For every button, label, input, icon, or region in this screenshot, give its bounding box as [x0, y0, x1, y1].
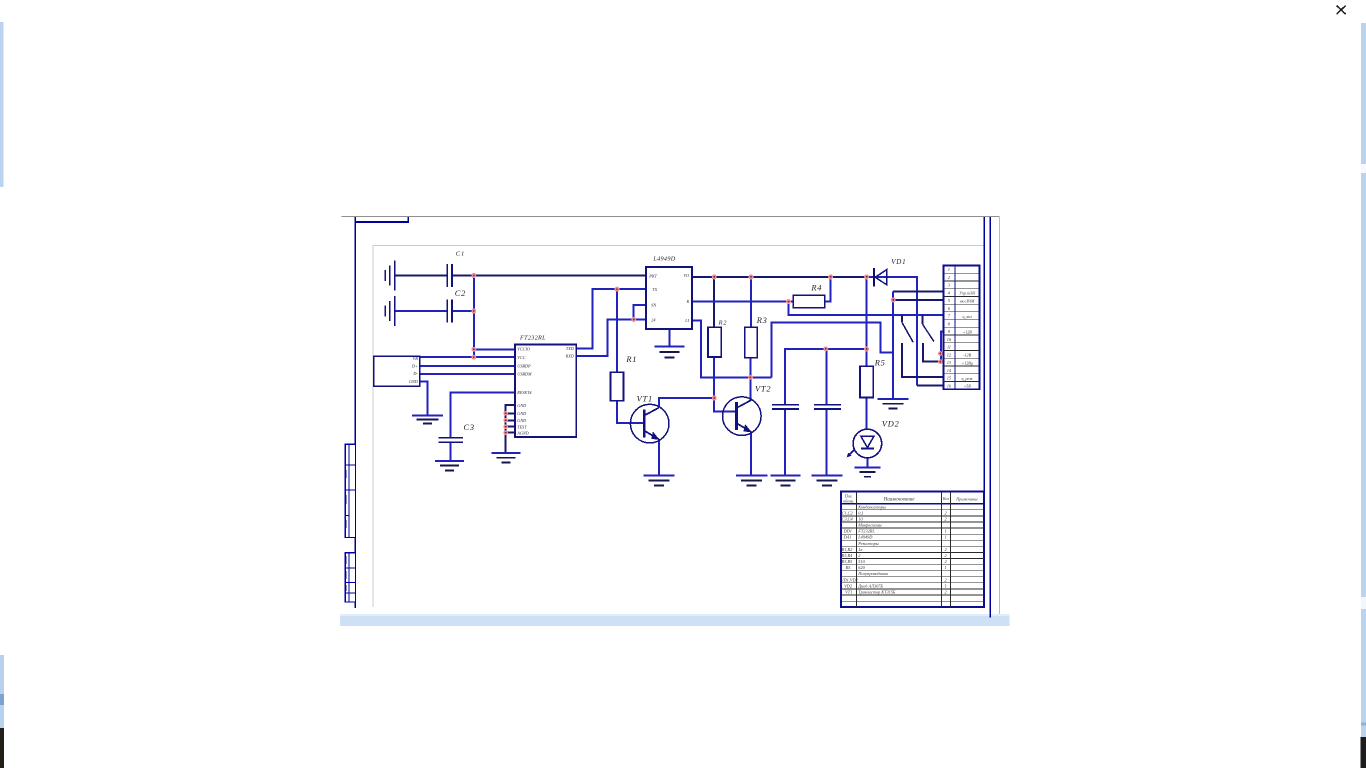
svg-text:R: R	[685, 299, 689, 304]
junction gnd bus 1	[503, 411, 508, 416]
svg-text:R3: R3	[756, 316, 768, 325]
svg-text:DA1: DA1	[843, 535, 852, 540]
wire GND bus stub 3	[506, 419, 515, 421]
resistor R2	[708, 327, 721, 357]
wire battery2 to C2	[396, 310, 447, 312]
svg-text:USBDM: USBDM	[517, 371, 532, 376]
LED VD2	[847, 429, 882, 458]
wire USBDM	[420, 373, 515, 375]
ground USB	[412, 415, 443, 423]
label U2 L4949D	[652, 256, 675, 263]
junction node A1	[471, 273, 476, 278]
wire node B to R1	[616, 289, 618, 372]
bottom scrollbar band	[340, 614, 1010, 626]
svg-text:обозн.: обозн.	[843, 498, 854, 503]
label VT2	[755, 384, 771, 393]
label VT1	[637, 394, 653, 403]
label R5	[874, 359, 886, 368]
junction VT1 collector	[712, 396, 717, 401]
connector pin numbers	[947, 267, 952, 388]
left edge panel strip top	[0, 22, 4, 187]
junction VT2 collector	[748, 375, 753, 380]
wire GND bus stub 4	[506, 426, 515, 428]
svg-text:+12В: +12В	[963, 329, 973, 334]
left edge panel strip bottom	[0, 655, 4, 768]
junction C4 top	[823, 346, 828, 351]
svg-text:TX: TX	[652, 287, 657, 292]
svg-text:L4949D: L4949D	[857, 535, 873, 540]
svg-text:TEST: TEST	[517, 424, 527, 429]
wire A to connector row7	[789, 302, 945, 315]
label R3	[756, 316, 768, 325]
svg-text:620: 620	[858, 565, 865, 570]
wire USBDP	[420, 365, 515, 367]
wire GND bus stub 1	[506, 405, 515, 453]
junction rail VD1	[864, 274, 869, 279]
svg-text:+5В: +5В	[964, 384, 972, 389]
close button	[1337, 6, 1346, 15]
svg-text:C3: C3	[464, 423, 475, 432]
svg-text:VCC: VCC	[517, 355, 525, 360]
svg-text:TXD: TXD	[566, 346, 574, 351]
svg-text:1: 1	[948, 267, 950, 272]
junction rail R3	[749, 274, 754, 279]
svg-text:Упр.тЭН: Упр.тЭН	[959, 291, 976, 296]
wire U2 pin3R to VT2 collector node	[692, 320, 771, 377]
pin labels U2 right	[684, 273, 690, 323]
wire TXD to U2	[576, 289, 646, 348]
junction rail R2	[712, 274, 717, 279]
junction R5 top	[864, 347, 869, 352]
pin labels U1 right	[565, 346, 574, 358]
svg-text:GND: GND	[517, 411, 526, 416]
svg-text:VD2: VD2	[844, 583, 853, 588]
battery GB2	[385, 296, 395, 326]
switch S2 contact	[923, 315, 941, 362]
connector pin names	[959, 291, 976, 389]
svg-text:Резисторы: Резисторы	[857, 541, 878, 546]
svg-text:VT1: VT1	[845, 590, 852, 595]
label VD2	[882, 419, 900, 428]
wire R5 to VD2	[866, 397, 868, 429]
wire connector row4	[893, 291, 944, 293]
frame right border double line	[984, 217, 990, 618]
junction node B TXD	[615, 287, 620, 292]
junction row12	[938, 351, 943, 356]
ground U2	[654, 347, 684, 358]
wire connector row9 branch	[941, 331, 945, 361]
svg-text:FT232RL: FT232RL	[857, 529, 875, 534]
ground C3	[435, 461, 464, 471]
svg-text:VCCIO: VCCIO	[517, 347, 530, 352]
svg-text:VT1: VT1	[637, 394, 653, 403]
svg-text:RXD: RXD	[565, 354, 574, 359]
svg-text:Транзистор КТ315Б: Транзистор КТ315Б	[858, 590, 896, 595]
svg-text:1: 1	[945, 565, 947, 570]
wire rail to R2	[713, 277, 715, 327]
wire C2 to node A	[453, 310, 474, 312]
junction rail R4	[828, 274, 833, 279]
wire RESET to C3	[450, 392, 515, 437]
resistor R3	[745, 327, 758, 358]
frame left border line	[354, 217, 356, 608]
svg-text:R2: R2	[718, 319, 728, 326]
ground right connector	[878, 399, 909, 408]
svg-text:Примечание: Примечание	[955, 497, 978, 502]
svg-text:Микросхемы: Микросхемы	[857, 523, 881, 528]
ground U1 bus	[492, 453, 521, 463]
svg-text:USBDP: USBDP	[517, 364, 531, 369]
svg-text:Полупроводники: Полупроводники	[857, 571, 888, 576]
op-amp U2 L4949D box	[646, 267, 692, 329]
svg-text:SN: SN	[651, 303, 656, 308]
connector X1 USB box	[374, 356, 420, 386]
svg-text:VD1: VD1	[891, 258, 906, 266]
svg-text:ц_вкл: ц_вкл	[962, 314, 972, 319]
ground C5	[770, 476, 800, 486]
wire GND bus stub 5	[506, 432, 515, 434]
switch S1 contact	[902, 315, 945, 377]
wire USB gnd	[420, 381, 428, 415]
wire connector row13 stub	[940, 361, 944, 363]
label R1	[625, 355, 637, 364]
wire main top rail	[692, 276, 874, 278]
wire R3 bottom to VT2 collector	[750, 358, 752, 401]
battery GB1	[385, 261, 395, 291]
label U1 FT232RL	[519, 335, 546, 342]
BOM rows text	[841, 504, 948, 594]
svg-text:C2: C2	[455, 289, 466, 298]
svg-text:VD2: VD2	[882, 419, 900, 428]
ground C4	[812, 476, 843, 486]
pin labels X1	[409, 356, 418, 384]
wire RXD to U2 pin4	[576, 319, 646, 356]
wire VD1 to connector row16	[867, 277, 945, 385]
svg-text:1: 1	[945, 583, 947, 588]
wire C3 to ground	[449, 442, 451, 461]
capacitor C1	[447, 264, 452, 287]
op-amp U1 FT232RL box	[515, 344, 576, 437]
resistor R1	[611, 372, 624, 401]
BOM header text	[843, 494, 978, 504]
wire R2 bottom to VT2 base	[714, 357, 736, 412]
label VD1	[891, 258, 906, 266]
wire VD2 to ground	[866, 458, 868, 468]
wire battery1 to C1	[396, 275, 447, 277]
svg-text:Наименование: Наименование	[883, 498, 916, 503]
capacitor C5	[772, 405, 799, 409]
svg-text:GND: GND	[409, 379, 418, 384]
svg-text:1: 1	[945, 535, 947, 540]
junction R4 left	[786, 299, 791, 304]
junction gnd bus 3	[503, 424, 508, 429]
label R2	[718, 319, 728, 326]
wire VT1 emitter to ground	[658, 439, 660, 475]
svg-text:AGND: AGND	[516, 430, 528, 435]
transistor VT1	[630, 404, 669, 443]
svg-text:510: 510	[858, 559, 865, 564]
label C1	[456, 251, 465, 258]
svg-text:GND: GND	[517, 403, 526, 408]
svg-text:Диод АЛ307Б: Диод АЛ307Б	[857, 583, 883, 588]
right gray edge line	[999, 217, 1001, 619]
junction node A4	[471, 355, 476, 360]
diode VD1	[874, 268, 887, 287]
wire connector row12 stub	[940, 353, 944, 355]
svg-text:R5: R5	[874, 359, 886, 368]
wire C5 to ground	[784, 409, 786, 474]
right edge scrollbar strip	[1361, 23, 1366, 768]
capacitor C3	[439, 438, 463, 442]
sheet gray border	[373, 246, 984, 607]
svg-text:Конденсаторы: Конденсаторы	[857, 504, 886, 509]
ground VT2	[736, 476, 768, 486]
wire VBUS to VCC	[420, 356, 515, 358]
resistor R5	[860, 366, 873, 397]
svg-text:-12В: -12В	[963, 353, 971, 358]
svg-text:VT2: VT2	[755, 384, 771, 393]
wire rail to R5	[866, 277, 868, 366]
wire U2 pin3 stub	[634, 305, 646, 319]
svg-text:D+: D+	[411, 363, 418, 368]
wire C4 drop	[826, 349, 828, 404]
wire C1 to U2 pin IN	[453, 275, 646, 277]
junction gnd bus 4	[503, 430, 508, 435]
capacitor C2	[447, 300, 452, 323]
label C2	[455, 289, 466, 298]
svg-text:+12Вg: +12Вg	[962, 360, 973, 365]
svg-text:Кол: Кол	[942, 496, 949, 501]
top gray separator line	[342, 216, 1000, 218]
wire U2 gnd stub	[668, 329, 670, 347]
wire U2 pin2R to R4	[692, 301, 793, 303]
svg-text:24: 24	[651, 318, 655, 323]
svg-text:R1: R1	[625, 355, 637, 364]
resistor R4	[793, 295, 825, 308]
wire R1 to VT1 base	[617, 401, 644, 423]
capacitor C4	[814, 405, 841, 409]
wire VT2 emitter to ground	[750, 432, 752, 475]
junction row13	[938, 359, 943, 364]
junction row5	[891, 297, 896, 302]
ground VD2	[854, 468, 880, 477]
svg-text:FT232RL: FT232RL	[519, 335, 546, 342]
svg-text:L4949D: L4949D	[652, 256, 675, 263]
left stamp box 2	[345, 553, 355, 602]
svg-text:ц_реж: ц_реж	[961, 376, 973, 381]
frame top-left step	[355, 217, 408, 222]
transistor VT2	[723, 397, 762, 436]
svg-text:RESET#: RESET#	[516, 390, 532, 395]
svg-text:R4: R4	[810, 284, 822, 293]
svg-text:R5: R5	[845, 565, 852, 570]
pin labels U2 left	[648, 274, 657, 323]
wire GND bus stub 2	[506, 412, 515, 414]
svg-text:C1: C1	[456, 251, 465, 258]
wire VT2 node to ground vertical	[771, 323, 893, 378]
svg-text:вкл.РАМ: вкл.РАМ	[960, 298, 975, 303]
svg-text:1: 1	[945, 529, 947, 534]
svg-text:DD1: DD1	[843, 529, 852, 534]
wire rail to R3	[750, 277, 752, 327]
wire R4 to rail	[825, 277, 831, 302]
wire C5 C4 top rail	[785, 349, 867, 404]
left stamp box 1	[345, 444, 355, 537]
wire VCCIO	[474, 348, 515, 350]
wire row4 corner to right ground	[892, 292, 894, 399]
svg-text:11: 11	[947, 345, 951, 350]
svg-text:VO: VO	[684, 273, 689, 278]
wire C4 to ground	[826, 409, 828, 474]
junction node pin3	[631, 317, 636, 322]
ground VT1	[644, 476, 675, 486]
label C3	[464, 423, 475, 432]
junction gnd bus 2	[503, 418, 508, 423]
svg-text:D-: D-	[412, 371, 418, 376]
wire node A vertical bus	[473, 276, 475, 358]
label R4	[810, 284, 822, 293]
junction node A2	[471, 309, 476, 314]
wire VT1 collector	[659, 398, 715, 408]
BOM table	[841, 491, 984, 607]
connector table X2	[944, 265, 980, 389]
svg-text:VB: VB	[413, 356, 419, 361]
pin labels U1 left	[516, 347, 532, 436]
svg-text:LI: LI	[684, 318, 689, 323]
svg-text:PKT: PKT	[648, 274, 657, 279]
junction node A3	[471, 347, 476, 352]
wire connector row5	[893, 299, 944, 301]
svg-text:GND: GND	[517, 418, 526, 423]
